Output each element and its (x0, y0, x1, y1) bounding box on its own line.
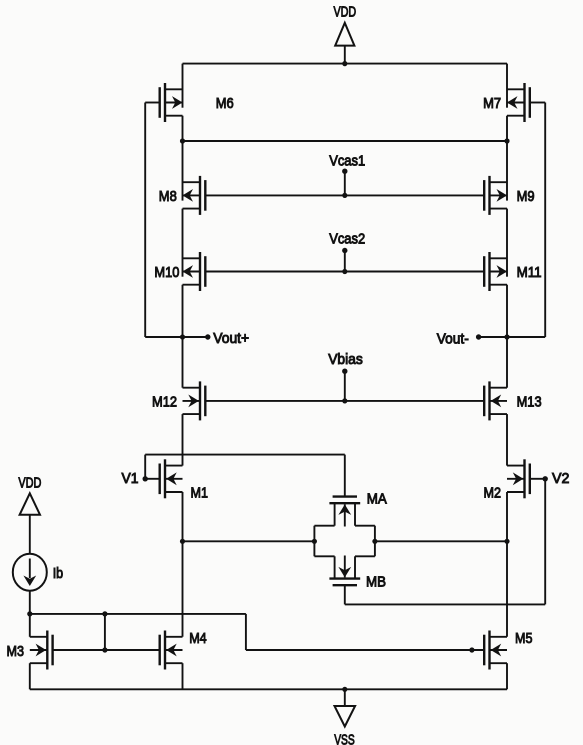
svg-text:M4: M4 (189, 630, 207, 647)
node Vout- terminal (437, 330, 507, 347)
svg-text:M7: M7 (483, 95, 501, 112)
wire V2 to MB gate (345, 479, 545, 605)
node V1 input (122, 470, 148, 487)
wire bottom VSS rail (30, 688, 507, 690)
transistor M5 (484, 631, 507, 670)
current source Ib (13, 554, 47, 591)
svg-text:M1: M1 (191, 484, 209, 501)
wire Vbias gate line (205, 400, 484, 402)
wire M8 drain to M10 source with bulk tie (182, 209, 184, 277)
wire M7 gate feedback branch (right) (507, 103, 545, 338)
wire M9 source vertical with bulk tie (506, 141, 508, 201)
junction dot cross right node (372, 539, 377, 544)
wire M2 source down to M5 drain (506, 492, 508, 637)
wire M7 drain vertical (506, 116, 508, 141)
svg-text:M9: M9 (517, 188, 535, 205)
transistor M1 (145, 459, 182, 498)
wire Vout- to M13 drain (506, 337, 508, 388)
svg-text:M8: M8 (159, 188, 177, 205)
node V2 input (543, 470, 570, 487)
wire M1 source to cross left (183, 540, 315, 542)
transistor M8 (183, 176, 206, 215)
junction dot Vout+ node (180, 334, 185, 339)
junction dot M7 drain / rail (504, 138, 509, 143)
transistor M12 (183, 381, 206, 420)
svg-text:VDD: VDD (334, 3, 357, 20)
wire Vout+ to M12 drain (182, 337, 184, 388)
power symbol VSS (334, 689, 355, 745)
junction dot Vcas1 / gate line (342, 193, 347, 198)
svg-text:M5: M5 (515, 630, 533, 647)
node Vout+ terminal (183, 330, 250, 347)
wire Vcas2 gate line (205, 271, 484, 273)
wire M3-M4 gate line (53, 649, 160, 651)
wire M3 source to ground rail (29, 663, 31, 689)
svg-text:Vcas2: Vcas2 (329, 230, 365, 247)
junction dot near M5 gate (469, 647, 474, 652)
wire Ib to bias node (29, 591, 31, 614)
junction dot M3-M4 gate line (102, 647, 107, 652)
junction dot Vout- node (504, 334, 509, 339)
svg-text:M3: M3 (7, 643, 25, 660)
svg-text:VDD: VDD (18, 474, 41, 491)
svg-text:Vbias: Vbias (328, 351, 363, 368)
junction dot M2 source node (504, 539, 509, 544)
junction dot cross left node (312, 539, 317, 544)
svg-text:V2: V2 (552, 470, 569, 487)
transistor M6 (145, 83, 182, 122)
wire MA/MB right cross link (355, 526, 375, 557)
svg-text:Vout-: Vout- (437, 330, 469, 347)
transistor M13 (484, 381, 507, 420)
junction dot VDD/top rail (342, 61, 347, 66)
svg-text:V1: V1 (122, 470, 139, 487)
wire Vcas1 gate line (205, 194, 484, 196)
wire M6 drain vertical (182, 116, 184, 141)
svg-text:M2: M2 (484, 484, 502, 501)
wire M6 gate feedback branch (left) (145, 103, 182, 338)
transistor M11 (484, 252, 507, 291)
transistor MB (329, 556, 360, 605)
wire M12 source to M1 drain (182, 414, 184, 466)
svg-text:M12: M12 (152, 394, 177, 411)
wire M10 drain to Vout+ node (182, 285, 184, 337)
svg-text:MB: MB (366, 574, 386, 591)
svg-text:VSS: VSS (334, 731, 355, 745)
svg-text:M10: M10 (154, 264, 179, 281)
transistor M9 (484, 176, 507, 215)
wire M8 source vertical with bulk tie (182, 141, 184, 201)
wire M4 source to ground rail (182, 663, 184, 689)
transistor MA (329, 455, 360, 527)
junction dot VSS / bottom rail (342, 687, 347, 692)
svg-text:M11: M11 (517, 264, 542, 281)
junction dot M6 drain / rail (180, 138, 185, 143)
node Vcas1 terminal (329, 152, 365, 195)
wire M9 drain to M11 source with bulk tie (506, 209, 508, 277)
svg-text:M6: M6 (216, 95, 234, 112)
transistor M7 (507, 83, 545, 122)
wire M5 source to ground rail (506, 663, 508, 689)
junction dot Vbias / gate line (342, 398, 347, 403)
power symbol VDD (bias branch) (18, 474, 41, 553)
svg-text:Vcas1: Vcas1 (329, 152, 365, 169)
wire M7 source vertical with bulk tie (506, 64, 508, 108)
transistor M4 (160, 631, 183, 670)
wire M6-M7 drain rail (183, 140, 508, 142)
power symbol VDD (top) (334, 3, 357, 63)
wire gate drop to M3-M4 gate line (104, 614, 106, 650)
wire bias node to M3 drain (29, 614, 31, 637)
svg-text:Ib: Ib (53, 565, 64, 582)
junction dot Vcas2 / gate line (342, 269, 347, 274)
svg-text:Vout+: Vout+ (213, 330, 249, 347)
wire M6 source vertical with bulk tie (182, 64, 184, 108)
wire MA/MB left cross link (314, 526, 334, 557)
junction dot bias node (27, 611, 32, 616)
wire M1 source down to M4 drain (182, 492, 184, 637)
svg-text:MA: MA (367, 491, 387, 508)
wire M13 source to M2 drain (506, 414, 508, 466)
wire V1 to MA gate (145, 455, 345, 479)
node Vbias terminal (328, 351, 363, 401)
wire bias node to M5 gate route (30, 614, 484, 650)
junction dot M1 source node (180, 539, 185, 544)
transistor M3 (30, 631, 53, 670)
svg-text:M13: M13 (517, 394, 542, 411)
wire top VDD rail (183, 63, 508, 65)
transistor M10 (183, 252, 206, 291)
junction dot on bias wire (102, 611, 107, 616)
node Vcas2 terminal (329, 230, 365, 271)
wire M11 drain to Vout- node (506, 285, 508, 337)
wire cross right to M2 source (375, 540, 507, 542)
transistor M2 (507, 459, 545, 498)
